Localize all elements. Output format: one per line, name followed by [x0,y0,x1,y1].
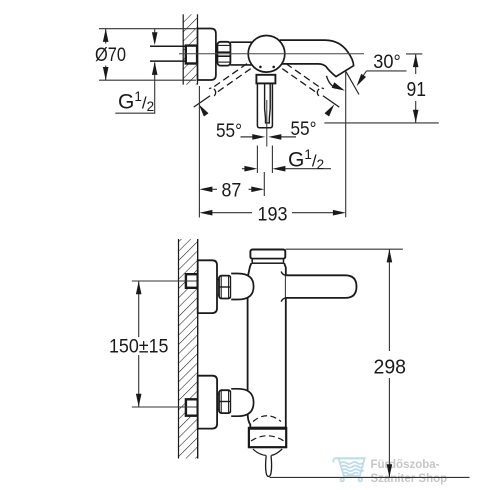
upper escutcheon (side view) [198,260,217,313]
outlet hidden arc (dashed) [253,416,281,422]
dimension O70 [99,29,196,80]
lever handle (top view, pointing down) [256,75,275,128]
faucet body (side view) [248,263,286,428]
svg-text:55°: 55° [216,120,242,142]
svg-text:30°: 30° [373,51,401,73]
handle root fillets [281,272,286,276]
dimension 87 [199,86,264,218]
radial extension of left 55 deg [194,96,210,107]
svg-text:193: 193 [258,203,288,225]
wall (side view) hatched band [179,239,198,459]
wall (top view) hatched band [183,14,197,84]
hidden aerator arc (dashed) [251,436,284,441]
centerline (top view) [179,53,364,55]
neck ring (side view) [252,259,283,264]
upper thread square (side view) [186,274,198,288]
arrow on left 55 deg line [199,104,209,116]
outlet shoulders [253,449,266,455]
escutcheon (top view) [198,29,216,81]
dashed rotated handle, left 55 deg [209,64,251,96]
supply pipe (top view) [150,46,185,61]
dimension 193 [212,212,334,214]
svg-text:91: 91 [407,79,427,101]
svg-text:298: 298 [374,357,407,379]
G1/2 thread square in wall (top view) [186,46,197,64]
dashed rotated handle, right 55 deg [282,64,324,96]
30 deg reference line at spout tip [346,71,359,94]
lower hex nut (side view) [219,390,231,413]
dimension G1/2 (supply) [115,29,155,114]
body circle (cartridge housing, top view) [248,36,285,73]
upper hex nut (side view) [219,276,231,299]
swivel arrow under spout [327,76,337,89]
dimension 298 [270,249,470,477]
spout (top view) [280,40,354,77]
svg-text:Szaniter Shop: Szaniter Shop [371,473,448,485]
top cap (side view) [250,250,285,259]
screw dots in circle [259,66,262,69]
watermark logo (shop basket with waves) [333,458,365,481]
arrow on right 55 deg line [325,104,335,116]
outlet ring [249,428,286,447]
dimension 150+-15 [132,281,197,407]
lower union bullet (side view) [231,389,253,416]
handle centerline below tip [266,100,268,147]
extension line from spout tip [345,71,347,217]
dimension G1/2 (outlet) [242,146,331,174]
upper nipple lines [217,280,219,410]
upper union bullet (side view) [231,274,253,300]
water drop / stream [266,455,272,476]
svg-text:Ø70: Ø70 [95,44,126,66]
lower escutcheon (side view) [198,376,217,429]
lower thread square (side view) [186,399,198,415]
hex nut (top view) [217,42,230,66]
lever handle (side view) [286,275,357,298]
tube to body (top view) [230,42,252,65]
svg-text:Fürdőszoba-: Fürdőszoba- [371,459,440,471]
55 deg center arrows [241,136,297,138]
svg-text:87: 87 [222,179,242,201]
connector neck (top view) [216,45,218,63]
radial extension of right 55 deg [323,96,339,107]
svg-text:55°: 55° [291,118,317,140]
dimension 91 [324,54,439,123]
svg-text:150±15: 150±15 [109,336,169,358]
